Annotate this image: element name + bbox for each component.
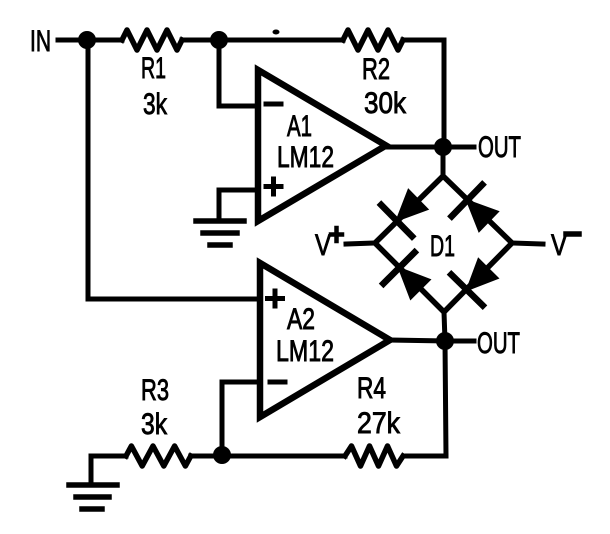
svg-text:LM12: LM12 bbox=[277, 141, 334, 174]
svg-text:R3: R3 bbox=[141, 374, 169, 407]
diode D1b (top-right, cathode bar and arrow) bbox=[452, 185, 483, 217]
wire R3 junction up to A2 inverting input bbox=[222, 382, 260, 455]
wire bottom rail left of R3 bbox=[91, 454, 126, 459]
wire left vertical from IN node down to A2 + input bbox=[88, 40, 260, 299]
resistor R3 bbox=[126, 446, 191, 466]
wire OUT stub (top) bbox=[443, 145, 474, 150]
wire ground stem at bottom left bbox=[89, 456, 94, 483]
resistor R4 bbox=[345, 446, 403, 466]
resistor R1 bbox=[122, 30, 182, 50]
diode D1c (bottom-left, cathode bar and arrow) bbox=[383, 252, 414, 283]
svg-text:R2: R2 bbox=[362, 53, 390, 86]
svg-text:V: V bbox=[315, 229, 331, 262]
A1 non-inverting input marker bbox=[266, 179, 281, 194]
svg-text:A1: A1 bbox=[287, 110, 312, 143]
svg-text:D1: D1 bbox=[430, 230, 455, 263]
wire IN to R1 bbox=[58, 38, 122, 43]
junction dot at R1/R2 node bbox=[210, 31, 228, 49]
A1 inverting input marker bbox=[266, 102, 281, 107]
diode D1a (top-left, cathode bar and arrow) bbox=[381, 205, 412, 236]
wire from node down to A1 inverting input bbox=[219, 40, 258, 106]
wire bridge right vertex to V- bbox=[512, 243, 543, 244]
svg-text:OUT: OUT bbox=[478, 131, 521, 164]
junction dot OUT (bottom) bbox=[436, 332, 454, 350]
wire R3 to R4 bbox=[191, 454, 345, 459]
wire A2 output to OUT node bbox=[390, 340, 445, 341]
wire OUT stub (bottom) bbox=[445, 339, 474, 344]
resistor R2 bbox=[343, 30, 403, 50]
svg-text:3k: 3k bbox=[141, 408, 168, 441]
diode D1d (bottom-right, cathode bar and arrow) bbox=[451, 275, 482, 306]
svg-text:27k: 27k bbox=[357, 407, 401, 440]
svg-text:3k: 3k bbox=[143, 88, 168, 121]
wire OUT node down to bridge top vertex bbox=[441, 147, 446, 176]
junction dot at IN node bbox=[78, 31, 96, 49]
op-amp A1 bbox=[258, 70, 386, 221]
junction dot OUT (top) bbox=[434, 138, 452, 156]
svg-text:IN: IN bbox=[30, 25, 51, 58]
A2 inverting input marker bbox=[270, 380, 285, 385]
junction dot at R3/R4 node bbox=[213, 446, 231, 464]
svg-text:30k: 30k bbox=[364, 87, 407, 120]
op-amp A2 bbox=[260, 263, 390, 417]
diode bridge D1 edges bbox=[375, 176, 512, 312]
ground at A1 + input bbox=[196, 218, 244, 224]
svg-text:LM12: LM12 bbox=[276, 335, 334, 368]
wire A1 + input to ground bbox=[219, 190, 258, 220]
wire R2 right to OUT node (top) bbox=[403, 40, 444, 147]
ground at R3 bbox=[69, 482, 117, 488]
wire A1 output to OUT node bbox=[386, 145, 443, 150]
wire R4 to right vertical bbox=[407, 454, 446, 459]
wire R1 to R2 bbox=[182, 38, 343, 43]
wire bridge bottom vertex to OUT node (bottom) and down to R4 bbox=[444, 312, 446, 456]
svg-text:R1: R1 bbox=[141, 52, 166, 85]
wire V+ to bridge left vertex bbox=[346, 243, 375, 244]
svg-text:A2: A2 bbox=[287, 303, 315, 336]
svg-text:OUT: OUT bbox=[477, 327, 520, 360]
A2 non-inverting input marker bbox=[268, 291, 283, 306]
svg-text:R4: R4 bbox=[357, 372, 386, 405]
